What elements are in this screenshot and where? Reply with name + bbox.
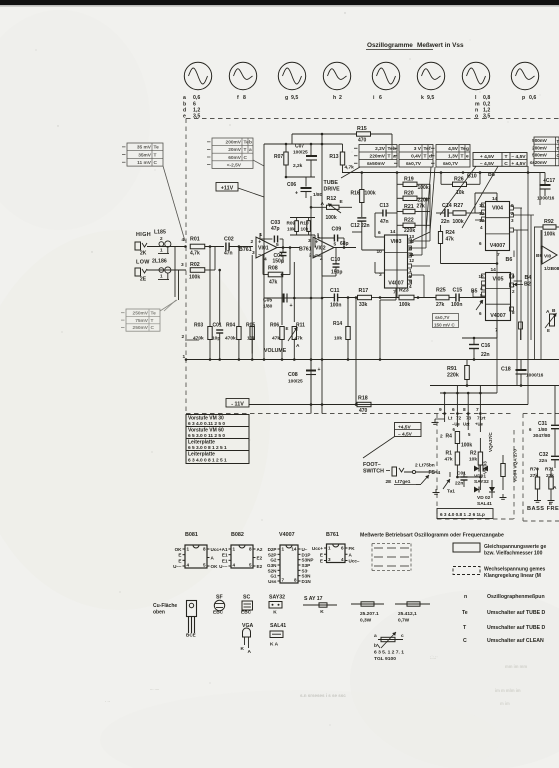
label B8	[488, 172, 495, 178]
resistor R17	[355, 288, 380, 406]
svg-text:A2: A2	[257, 547, 263, 552]
svg-text:5: 5	[468, 432, 471, 437]
label B2 arrow	[514, 282, 531, 288]
label VD 03 rotated	[483, 432, 494, 474]
svg-text:6 5 3.0 0 11 2 5 0: 6 5 3.0 0 11 2 5 0	[188, 433, 225, 439]
svg-text:20mV: 20mV	[228, 147, 242, 153]
svg-text:n: n	[464, 594, 467, 600]
capacitor C11	[322, 288, 356, 309]
svg-text:4,7k: 4,7k	[190, 251, 200, 257]
dashed footswitch box bottom	[437, 518, 514, 520]
transistor package front	[186, 601, 197, 638]
svg-text:100k: 100k	[453, 219, 464, 225]
capacitor C18	[501, 360, 544, 386]
svg-text:FS: FS	[429, 470, 436, 476]
oscillogram f	[417, 62, 444, 89]
svg-text:8: 8	[463, 407, 466, 413]
capacitor C31	[529, 415, 559, 447]
svg-text:D1P: D1P	[302, 552, 311, 557]
scan edge strip	[0, 0, 559, 5]
svg-text:500mV: 500mV	[532, 138, 548, 143]
svg-text:5: 5	[249, 563, 252, 568]
pinout label B761	[326, 532, 339, 538]
rail label 2	[182, 334, 200, 340]
IC VI05	[486, 273, 511, 321]
svg-text:R04: R04	[226, 323, 235, 329]
svg-text:+ 4,5V: + 4,5V	[480, 154, 495, 160]
legend title	[360, 533, 504, 539]
svg-text:VI0: VI0	[544, 254, 552, 260]
svg-text:S3NP: S3NP	[302, 558, 314, 563]
label B6	[506, 251, 515, 264]
svg-text:VD 03: VD 03	[483, 461, 488, 474]
resistor R09	[287, 221, 299, 232]
rail y385	[430, 384, 559, 387]
svg-text:B8: B8	[488, 172, 495, 178]
pinout label V4007	[279, 532, 295, 538]
svg-text:4: 4	[233, 563, 236, 568]
wire HIGH jack	[147, 245, 187, 248]
svg-text:R14: R14	[333, 321, 342, 327]
wire R09R10 top	[290, 218, 315, 221]
switch S1	[416, 475, 429, 485]
VI04 pin stubs	[475, 203, 514, 232]
diode VD01	[474, 466, 489, 486]
svg-text:SC: SC	[243, 595, 250, 601]
svg-text:LOW: LOW	[136, 260, 150, 266]
dashed boundary top	[186, 118, 559, 120]
resistor R26	[440, 171, 482, 196]
svg-text:T: T	[151, 318, 154, 324]
VI04 top wire	[475, 193, 497, 213]
capacitor C05	[263, 294, 296, 310]
leader 250mV to columns	[164, 300, 176, 311]
svg-text:R13: R13	[329, 154, 338, 160]
measurement box 200mV	[207, 138, 253, 168]
svg-text:C09: C09	[332, 227, 342, 233]
scan smudge right	[430, 654, 527, 706]
svg-text:T: T	[424, 154, 427, 160]
svg-text:– 4,5V: – 4,5V	[480, 161, 495, 167]
svg-text:E1: E1	[222, 558, 228, 563]
svg-text:47k: 47k	[269, 280, 278, 286]
VI05 left wires	[473, 290, 485, 310]
svg-text:EBC: EBC	[241, 610, 252, 616]
svg-text:U∙∙: U∙∙	[302, 547, 308, 552]
svg-text:K A: K A	[270, 642, 279, 648]
svg-text:R71: R71	[545, 467, 554, 473]
svg-text:R07: R07	[274, 154, 283, 160]
svg-text:35 mV: 35 mV	[137, 145, 152, 151]
svg-text:C01: C01	[457, 471, 466, 477]
VI04 bottom wire	[441, 251, 499, 265]
left rail	[263, 144, 265, 360]
svg-text:SWITCH: SWITCH	[363, 469, 384, 475]
resistor R16	[351, 173, 376, 218]
svg-text:100n: 100n	[330, 303, 341, 309]
resistor R03	[193, 323, 212, 360]
svg-text:1/80: 1/80	[263, 304, 273, 310]
svg-text:V4007: V4007	[388, 281, 404, 287]
svg-text:VD04 VQA 270: VD04 VQA 270	[513, 449, 519, 482]
svg-text:+: +	[315, 239, 318, 245]
svg-text:25.207.1: 25.207.1	[360, 611, 379, 617]
svg-text:≤±0,7V: ≤±0,7V	[443, 161, 459, 167]
svg-text:C15: C15	[453, 288, 463, 294]
op-amp VI06	[536, 245, 559, 272]
svg-text:C32: C32	[539, 452, 548, 458]
oscillogram c	[278, 62, 305, 89]
svg-text:Uzt: Uzt	[463, 422, 470, 427]
svg-text:47n: 47n	[224, 251, 233, 257]
switch Ta1	[443, 472, 455, 495]
svg-text:S2N: S2N	[268, 568, 278, 573]
svg-text:BASS FRE: BASS FRE	[527, 506, 559, 512]
svg-text:C12: C12	[351, 223, 360, 229]
capacitor C12	[351, 218, 370, 232]
resistor R27	[448, 203, 480, 225]
resistor R71	[545, 467, 554, 498]
svg-text:+11V: +11V	[221, 185, 234, 191]
jack HIGH label	[136, 232, 151, 238]
svg-text:10p: 10p	[212, 336, 220, 342]
oscillogram a	[184, 62, 211, 89]
svg-text:22n: 22n	[441, 219, 450, 225]
svg-text:R2: R2	[470, 451, 477, 457]
vertical x430	[413, 184, 430, 240]
svg-text:R1: R1	[446, 451, 453, 457]
leader line box A	[341, 167, 360, 178]
wire LOW jack	[147, 269, 186, 271]
svg-text:U––: U––	[219, 564, 228, 569]
svg-text:a: a	[183, 95, 186, 101]
svg-text:E1: E1	[222, 553, 228, 558]
svg-text:V4007: V4007	[490, 243, 506, 249]
svg-text:b: b	[249, 140, 252, 146]
svg-text:Meßwerte Betriebsart Oszillogr: Meßwerte Betriebsart Oszillogramm oder F…	[360, 533, 504, 539]
capacitor C02	[224, 237, 253, 257]
svg-text:−: −	[258, 252, 261, 258]
svg-text:A: A	[296, 343, 300, 349]
svg-text:2E: 2E	[140, 277, 147, 283]
svg-text:4,7k: 4,7k	[345, 165, 355, 171]
svg-text:A1: A1	[222, 547, 228, 552]
svg-text:5: 5	[334, 242, 337, 248]
svg-text:6: 6	[452, 407, 455, 413]
legend sample measurement box	[372, 543, 411, 571]
svg-text:SAL41: SAL41	[477, 501, 492, 507]
svg-text:35mV: 35mV	[138, 152, 152, 158]
svg-text:T: T	[461, 154, 464, 160]
svg-text:9,5: 9,5	[427, 95, 434, 101]
svg-text:100k: 100k	[418, 185, 429, 191]
svg-text:g: g	[466, 147, 469, 152]
legend text Gleichspannung	[484, 544, 546, 557]
dashed boundary left	[185, 119, 187, 414]
rail -11V	[249, 403, 528, 406]
svg-text:8: 8	[243, 95, 246, 101]
svg-text:R12: R12	[327, 196, 337, 202]
pin 3	[181, 262, 184, 268]
svg-text:47k: 47k	[445, 457, 453, 463]
potentiometer R12	[310, 196, 352, 221]
svg-text:+4,5V: +4,5V	[398, 425, 411, 431]
svg-text:27k: 27k	[436, 302, 445, 308]
svg-text:+: +	[318, 367, 321, 373]
svg-text:B761: B761	[299, 247, 312, 253]
svg-text:C01: C01	[213, 323, 222, 329]
resistor R15	[292, 126, 392, 145]
svg-text:S3∙: S3∙	[302, 568, 309, 573]
svg-text:47k: 47k	[295, 336, 303, 342]
svg-text:6 3 5. 1 2 7. 1: 6 3 5. 1 2 7. 1	[374, 650, 404, 656]
svg-text:0,8: 0,8	[483, 95, 490, 101]
svg-text:Ta1: Ta1	[447, 489, 455, 495]
label TUBE DRIVE	[324, 180, 341, 193]
VI05 pin labels	[479, 267, 516, 334]
measurement box 2,2V/220mV	[354, 145, 397, 168]
svg-text:Umschalter auf TUBE D: Umschalter auf TUBE D	[487, 625, 545, 631]
wire labels Ue	[452, 422, 483, 427]
svg-text:6: 6	[479, 311, 482, 316]
label VD04 rotated	[513, 449, 519, 482]
svg-text:Umschalter auf TUBE D: Umschalter auf TUBE D	[487, 610, 545, 616]
svg-text:<-2,5V: <-2,5V	[227, 162, 242, 168]
capacitor C10	[313, 248, 342, 277]
top rail +11V	[264, 143, 343, 146]
svg-text:100k: 100k	[326, 215, 337, 221]
svg-text:–Ue: –Ue	[452, 422, 460, 427]
svg-text:mm im mm: mm im mm	[505, 664, 527, 669]
svg-text:9,5: 9,5	[291, 95, 298, 101]
svg-text:0,4V: 0,4V	[411, 154, 422, 160]
svg-text:100k: 100k	[544, 232, 555, 238]
svg-text:0,6: 0,6	[193, 95, 200, 101]
svg-text:Leiterplatte: Leiterplatte	[188, 440, 215, 446]
pin 4	[182, 237, 185, 243]
capacitor C04	[273, 248, 287, 265]
resistor R04	[225, 323, 241, 360]
bus y393	[440, 264, 497, 394]
svg-text:T: T	[388, 154, 391, 160]
right edge verticals	[517, 166, 555, 415]
leader line 35mV box	[163, 166, 185, 241]
svg-text:1/80: 1/80	[538, 427, 548, 433]
label B10	[467, 174, 477, 180]
svg-text:Oszillographenmeßpun: Oszillographenmeßpun	[487, 594, 545, 600]
ground Lt	[432, 419, 445, 424]
scan smudge bottom left	[105, 686, 159, 704]
label 2E Lt7ge1	[386, 479, 417, 485]
label FOOT-SWITCH	[363, 462, 390, 475]
svg-text:VOLUME: VOLUME	[264, 348, 287, 354]
svg-text:B6: B6	[506, 257, 513, 263]
sample resistor 0,3W	[351, 602, 384, 624]
resistor R2	[469, 438, 483, 477]
resistor R21	[397, 204, 430, 214]
svg-text:10k: 10k	[469, 457, 477, 463]
VI03 pin stubs	[362, 213, 412, 284]
pinout B761	[312, 544, 360, 564]
package SC	[241, 595, 253, 616]
svg-text:2: 2	[339, 95, 342, 101]
svg-text:1: 1	[282, 547, 285, 552]
node numbers 9 6 8 7	[439, 407, 479, 413]
svg-text:Uss: Uss	[268, 579, 277, 584]
pinout B081	[173, 545, 222, 569]
wire R02 out	[205, 247, 215, 270]
pinout V4007	[267, 545, 313, 584]
svg-text:2E: 2E	[386, 479, 393, 485]
wire R01-C02	[205, 246, 224, 248]
svg-text:Oszillogramme: Oszillogramme	[367, 42, 413, 49]
leader 4,5V footswitch	[363, 437, 395, 459]
svg-text:Umschalter auf CLEAN: Umschalter auf CLEAN	[487, 638, 544, 644]
svg-text:R15: R15	[357, 126, 367, 132]
svg-text:6 3 4.0 0 8 1 2 5 1: 6 3 4.0 0 8 1 2 5 1	[188, 458, 227, 464]
svg-text:100k: 100k	[189, 275, 200, 281]
svg-text:f: f	[237, 95, 239, 101]
svg-text:SF: SF	[216, 595, 223, 601]
svg-text:47k: 47k	[272, 336, 280, 342]
label FS 4	[429, 470, 441, 476]
svg-text:Gleichspannungswerte ge: Gleichspannungswerte ge	[484, 544, 546, 550]
svg-text:R18: R18	[358, 396, 368, 402]
svg-text:E: E	[178, 558, 181, 563]
wire labels Lt 72 73	[448, 416, 486, 421]
svg-text:C14: C14	[442, 203, 452, 209]
legend n	[464, 594, 545, 600]
svg-text:+: +	[258, 239, 261, 245]
svg-text:C02: C02	[224, 237, 234, 243]
legend solid box	[453, 543, 480, 552]
oscillogram label a	[183, 95, 200, 120]
IC VI04	[486, 202, 510, 251]
svg-text:C: C	[463, 638, 467, 644]
svg-text:K: K	[241, 646, 245, 652]
resistor R4	[440, 427, 472, 449]
label BASS FREQ	[527, 506, 559, 512]
svg-text:E: E	[178, 553, 181, 558]
oscillogram label h	[333, 95, 342, 101]
jack LOW	[135, 268, 147, 283]
svg-text:E: E	[547, 328, 550, 333]
svg-text:150p: 150p	[331, 270, 342, 276]
measurement box 0,7V/150mV	[433, 314, 459, 328]
svg-text:≤±0,7V: ≤±0,7V	[406, 161, 422, 167]
legend text Wechselspannung	[484, 567, 546, 580]
svg-text:U––: U––	[173, 564, 182, 569]
svg-text:EBC: EBC	[213, 610, 224, 616]
svg-text:3: 3	[181, 262, 184, 268]
label B761 second	[299, 247, 312, 253]
svg-text:47n: 47n	[380, 219, 389, 225]
svg-text:4: 4	[187, 563, 190, 568]
package SF	[213, 595, 225, 616]
resistor R20	[397, 191, 430, 204]
svg-text:2: 2	[512, 289, 515, 294]
svg-text:VI02: VI02	[315, 246, 326, 252]
svg-text:S2P: S2P	[268, 552, 277, 557]
label E bass	[549, 501, 553, 507]
jack HIGH	[135, 242, 147, 257]
resistor R13	[329, 144, 354, 173]
legend Te	[462, 610, 545, 616]
measurement box 3V/0,4V	[394, 145, 433, 168]
oscillogram b	[229, 62, 256, 89]
svg-text:D2P: D2P	[268, 547, 277, 552]
svg-text:OK: OK	[211, 564, 219, 569]
svg-text:2,2k: 2,2k	[293, 163, 303, 169]
svg-text:f: f	[429, 146, 431, 152]
svg-text:1: 1	[233, 547, 236, 552]
svg-text:6: 6	[378, 230, 381, 236]
svg-text:470: 470	[359, 408, 368, 414]
svg-text:· ··: · ··	[105, 699, 110, 704]
VI03 bottom wire	[380, 288, 396, 360]
svg-text:9: 9	[439, 407, 442, 413]
svg-text:K: K	[320, 609, 324, 615]
svg-text:– 4,5V: – 4,5V	[511, 154, 526, 160]
svg-text:Te: Te	[462, 610, 468, 616]
label A bass	[553, 485, 557, 491]
dashed footswitch box right	[513, 430, 515, 519]
svg-text:100n: 100n	[451, 302, 462, 308]
svg-text:Ucc–: Ucc–	[349, 559, 360, 564]
jack LOW label	[136, 260, 150, 266]
svg-text:1,3V: 1,3V	[448, 154, 459, 160]
svg-text:R06: R06	[270, 323, 279, 329]
svg-text:d: d	[429, 154, 432, 160]
capacitor C03	[260, 220, 283, 248]
package SAL41	[270, 623, 286, 648]
rail mid	[342, 171, 545, 174]
oscillogram label l	[475, 95, 490, 120]
dashed bass box bottom	[523, 520, 559, 522]
svg-text:7: 7	[476, 407, 479, 413]
resistor R10	[300, 221, 310, 232]
wire R09R10 bottom	[290, 232, 315, 248]
capacitor C08	[288, 360, 321, 405]
svg-text:C: C	[504, 161, 508, 167]
measurement box 500mV top right	[530, 137, 559, 166]
svg-text:A: A	[349, 552, 353, 557]
svg-text:2L186: 2L186	[152, 259, 167, 265]
svg-text:4: 4	[320, 257, 323, 263]
svg-text:VI05: VI05	[492, 277, 503, 283]
diode VD02	[474, 487, 492, 508]
svg-text:4,5V: 4,5V	[448, 146, 459, 152]
svg-text:3: 3	[328, 557, 331, 562]
supply label box +11V	[216, 183, 238, 192]
label VOLUME	[264, 348, 287, 354]
svg-text:a: a	[374, 634, 377, 639]
capacitor C15	[449, 288, 485, 309]
svg-text:7: 7	[495, 328, 498, 334]
svg-text:6: 6	[379, 95, 382, 101]
svg-text:A: A	[248, 649, 252, 655]
svg-text:R02: R02	[190, 262, 200, 268]
svg-text:Lt: Lt	[448, 416, 453, 421]
svg-text:... ....: ... ....	[150, 686, 159, 691]
capacitor C09	[318, 227, 349, 248]
transformer L185 label	[154, 230, 166, 236]
potentiometer R11	[288, 323, 305, 360]
resistor R19	[397, 177, 430, 192]
svg-text:i: i	[373, 95, 375, 101]
svg-text:T: T	[154, 152, 157, 158]
legend C	[463, 638, 544, 644]
